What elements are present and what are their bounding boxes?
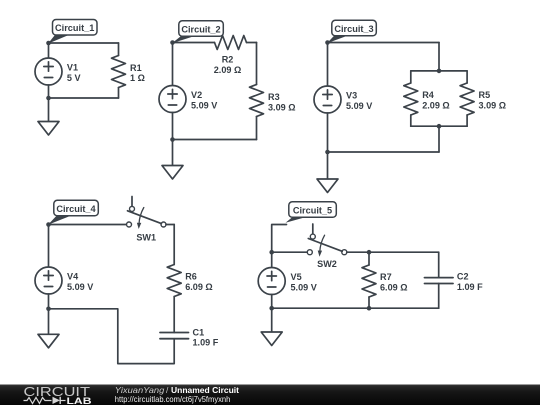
node Circuit_2 xyxy=(170,40,175,45)
callout Circuit_1 xyxy=(48,20,97,44)
junction C3 bottom xyxy=(325,150,330,155)
wire stub top-left C5 xyxy=(272,225,287,253)
svg-text:5.09 V: 5.09 V xyxy=(346,101,372,111)
resistor R6 xyxy=(167,265,181,297)
callout Circuit_4 xyxy=(48,200,98,225)
wire R4 bottom stub xyxy=(410,115,412,126)
wire right drop C3 xyxy=(438,43,440,71)
wire top C3 xyxy=(328,42,440,44)
junction C2 bottom xyxy=(170,137,175,142)
wire bottom bar parallel xyxy=(411,125,467,127)
svg-text:6.09 Ω: 6.09 Ω xyxy=(380,283,408,293)
voltage source V4 xyxy=(35,225,62,309)
svg-text:R3: R3 xyxy=(268,92,280,102)
svg-text:Circuit_4: Circuit_4 xyxy=(56,204,96,214)
svg-text:C1: C1 xyxy=(193,327,205,337)
junction C1 bottom xyxy=(46,96,51,101)
logo diode xyxy=(53,397,61,404)
wire right side C4 xyxy=(173,225,175,265)
svg-text:Circuit_5: Circuit_5 xyxy=(293,206,332,216)
wire top-left C2 xyxy=(173,42,215,44)
svg-text:5 V: 5 V xyxy=(67,73,81,83)
wire R3 bottom stub xyxy=(256,117,258,140)
capacitor C2 xyxy=(425,278,454,284)
svg-text:R4: R4 xyxy=(422,90,435,100)
wire to SW2 xyxy=(272,251,308,253)
wire C1 cap bottom path xyxy=(49,309,175,364)
wire bottom C2 xyxy=(173,139,257,141)
svg-text:V4: V4 xyxy=(67,271,79,281)
wire SW2 to node xyxy=(347,251,369,253)
wire top-left C4 xyxy=(49,224,127,226)
wire C2 cap top stub xyxy=(438,252,440,277)
svg-text:6.09 Ω: 6.09 Ω xyxy=(185,282,213,292)
svg-text:5.09 V: 5.09 V xyxy=(67,282,93,292)
wire R6 to C1 cap xyxy=(173,297,175,333)
wire bottom C1 xyxy=(49,97,119,99)
capacitor C1 xyxy=(160,333,189,339)
svg-text:http://circuitlab.com/ct6j7v5f: http://circuitlab.com/ct6j7v5fmyxnh xyxy=(115,394,231,404)
wire top C1 xyxy=(49,42,119,44)
svg-text:V5: V5 xyxy=(291,272,302,282)
junction C3 parallel top xyxy=(437,69,442,74)
voltage source V1 xyxy=(35,43,62,98)
junction C5 R7 bottom xyxy=(367,306,372,311)
svg-text:2.09 Ω: 2.09 Ω xyxy=(214,65,242,75)
switch SW2 xyxy=(307,224,347,257)
svg-text:1.09 F: 1.09 F xyxy=(193,338,219,348)
resistor R1 xyxy=(112,56,126,88)
svg-text:R1: R1 xyxy=(130,63,142,73)
svg-text:R2: R2 xyxy=(222,55,234,65)
node Circuit_1 xyxy=(46,41,51,46)
svg-text:V3: V3 xyxy=(346,90,357,100)
junction C3 parallel bottom xyxy=(437,124,442,129)
svg-text:Circuit_3: Circuit_3 xyxy=(334,24,373,34)
svg-text:SW1: SW1 xyxy=(136,233,156,243)
svg-text:C2: C2 xyxy=(457,271,469,281)
voltage source V2 xyxy=(159,43,186,140)
ground C2 xyxy=(162,140,183,180)
wire bottom C5 xyxy=(272,307,439,309)
svg-text:1.09 F: 1.09 F xyxy=(457,282,483,292)
svg-text:R6: R6 xyxy=(185,272,197,282)
ground C1 xyxy=(38,98,59,135)
switch SW1 xyxy=(127,197,167,230)
ground C3 xyxy=(317,152,338,193)
wire R5 bottom stub xyxy=(466,115,468,126)
ground C4 xyxy=(38,309,59,348)
wire right side C2 xyxy=(256,43,258,85)
junction C5 R7 top xyxy=(367,250,372,255)
svg-text:5.09 V: 5.09 V xyxy=(291,282,317,292)
resistor R4 xyxy=(404,83,418,115)
wire node to corner C5 xyxy=(369,251,439,253)
wire bottom C3 xyxy=(328,151,440,153)
svg-text:R5: R5 xyxy=(479,90,491,100)
node Circuit_3 xyxy=(325,40,330,45)
voltage source V5 xyxy=(258,252,285,308)
svg-text:V2: V2 xyxy=(191,90,202,100)
junction C5 top-left xyxy=(269,250,274,255)
wire R5 top stub xyxy=(466,71,468,83)
footer bar xyxy=(0,385,540,405)
svg-text:1 Ω: 1 Ω xyxy=(130,73,145,83)
resistor R2 xyxy=(215,36,247,50)
svg-text:5.09 V: 5.09 V xyxy=(191,100,217,110)
svg-text:3.09 Ω: 3.09 Ω xyxy=(268,102,296,112)
wire resistor R1 top stub xyxy=(118,43,120,56)
node label callouts xyxy=(48,20,376,225)
wire R7 top stub xyxy=(368,252,370,265)
wire R4 top stub xyxy=(410,71,412,83)
svg-text:2.09 Ω: 2.09 Ω xyxy=(422,101,450,111)
node Circuit_4 xyxy=(46,222,51,227)
wire R7 bottom stub xyxy=(368,297,370,308)
svg-text:V1: V1 xyxy=(67,62,78,72)
callout Circuit_5 xyxy=(286,202,337,223)
logo resistor squiggle xyxy=(24,398,52,404)
junction C5 bottom-left xyxy=(269,306,274,311)
wire top bar parallel xyxy=(411,70,467,72)
resistor R3 xyxy=(250,85,264,117)
junction C4 bottom xyxy=(46,307,51,312)
wire C2 cap bottom stub xyxy=(438,284,440,309)
svg-text:R7: R7 xyxy=(380,272,392,282)
wire SW1 to corner xyxy=(166,224,174,226)
wire resistor R1 bottom stub xyxy=(118,88,120,99)
svg-text:3.09 Ω: 3.09 Ω xyxy=(479,101,507,111)
ground C5 xyxy=(261,308,282,345)
wire R2 to corner xyxy=(247,42,257,44)
voltage source V3 xyxy=(314,43,341,153)
callout Circuit_3 xyxy=(327,20,376,43)
resistor R7 xyxy=(362,265,376,297)
svg-text:Circuit_2: Circuit_2 xyxy=(181,25,220,35)
node dots xyxy=(46,40,441,311)
svg-text:LAB: LAB xyxy=(67,396,92,405)
wire center drop C3 xyxy=(438,126,440,152)
svg-text:SW2: SW2 xyxy=(317,259,337,269)
svg-text:Circuit_1: Circuit_1 xyxy=(55,23,94,33)
resistor R5 xyxy=(460,83,474,115)
callout Circuit_2 xyxy=(172,21,223,43)
